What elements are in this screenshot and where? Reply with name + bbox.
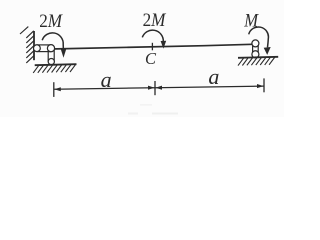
horizontal link between pins	[37, 44, 51, 46]
arrowhead middle moment	[161, 41, 167, 49]
vertical link right support	[252, 43, 254, 54]
wall hatching	[20, 27, 34, 63]
tick at C	[151, 43, 153, 51]
moment arrow left (2M)	[42, 33, 63, 50]
moment arrow right (M)	[249, 27, 269, 47]
arrowhead left moment	[61, 49, 66, 58]
svg-text:2M: 2M	[39, 11, 63, 32]
wall (left fixed surface)	[33, 31, 35, 60]
svg-text:2M: 2M	[143, 10, 167, 31]
beam	[51, 44, 252, 49]
svg-text:a: a	[208, 64, 219, 89]
arrowhead right moment	[264, 47, 271, 55]
dim arrow mid-left	[155, 86, 162, 90]
vertical link left support	[47, 48, 49, 61]
dimension line ticks	[53, 82, 55, 97]
svg-text:a: a	[101, 67, 112, 92]
pin beam right end	[252, 40, 259, 47]
pin lower right support	[252, 51, 259, 58]
svg-text:C: C	[145, 49, 157, 68]
dim arrow left-left	[54, 87, 61, 91]
dim arrow right-right	[257, 84, 264, 88]
pin beam left end	[47, 45, 54, 52]
pin at wall	[34, 45, 41, 52]
pin lower left support	[48, 59, 54, 65]
moment arrow middle (2M)	[142, 30, 163, 41]
ground left support	[35, 64, 77, 65]
svg-text:M: M	[243, 11, 259, 31]
faint scan smudges	[128, 113, 138, 115]
dimension lines	[54, 88, 154, 90]
ground right support	[238, 57, 278, 58]
dim arrow mid-right	[148, 86, 155, 90]
